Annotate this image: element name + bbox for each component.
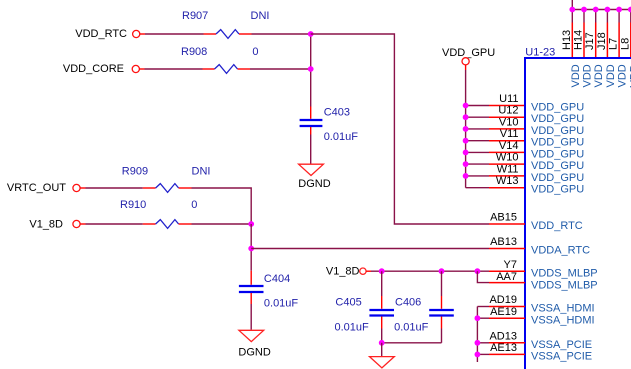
svg-text:Y7: Y7 bbox=[504, 259, 517, 271]
capacitor C403 bbox=[310, 107, 312, 119]
wire R908 to junction bbox=[250, 68, 311, 70]
svg-text:U1-23: U1-23 bbox=[525, 47, 555, 59]
svg-text:DGND: DGND bbox=[238, 347, 270, 359]
svg-text:VRTC_OUT: VRTC_OUT bbox=[7, 182, 66, 194]
svg-text:VDD: VDD bbox=[570, 64, 582, 87]
ground DGND (C403) bbox=[299, 164, 324, 175]
terminal VRTC_OUT bbox=[73, 184, 80, 191]
terminal VDD_GPU bbox=[462, 58, 469, 65]
svg-text:VDD_GPU: VDD_GPU bbox=[531, 172, 584, 184]
resistor R910 bbox=[143, 223, 156, 225]
svg-text:C405: C405 bbox=[335, 296, 361, 308]
svg-text:0.01uF: 0.01uF bbox=[324, 131, 359, 143]
capacitor C404 bbox=[250, 271, 252, 285]
svg-text:AB15: AB15 bbox=[490, 212, 517, 224]
resistor R907 bbox=[204, 33, 217, 35]
svg-text:C403: C403 bbox=[324, 106, 350, 118]
node C406 top bbox=[439, 268, 445, 274]
svg-text:DNI: DNI bbox=[192, 166, 211, 178]
svg-text:L7: L7 bbox=[608, 38, 620, 50]
svg-text:VDDS_MLBP: VDDS_MLBP bbox=[531, 268, 598, 280]
resistor R909 bbox=[143, 187, 156, 189]
wire junction vertical (R907/R908 to C403) bbox=[310, 34, 312, 107]
wire VDD_RTC to R907 bbox=[140, 33, 145, 35]
svg-text:VSSA_PCIE: VSSA_PCIE bbox=[531, 351, 592, 363]
wire pin W13 bbox=[466, 187, 489, 189]
wire pin V14 bbox=[466, 151, 489, 153]
svg-text:U11: U11 bbox=[499, 93, 518, 105]
svg-text:VDD: VDD bbox=[582, 64, 594, 87]
wire junction to AB15 branch bbox=[311, 34, 489, 224]
svg-text:VDD_GPU: VDD_GPU bbox=[531, 148, 584, 160]
svg-text:0: 0 bbox=[191, 199, 197, 211]
svg-text:0: 0 bbox=[252, 46, 258, 58]
svg-text:V11: V11 bbox=[500, 128, 519, 140]
svg-text:V10: V10 bbox=[499, 116, 519, 128]
wire R907 to junction bbox=[252, 33, 311, 35]
svg-text:J17: J17 bbox=[584, 32, 596, 50]
terminal V1_8D bottom bbox=[360, 268, 366, 274]
node C405 bottom bbox=[379, 340, 385, 346]
top bus wire bbox=[572, 0, 631, 10]
terminal V1_8D bbox=[73, 220, 80, 227]
wire pin U12 bbox=[466, 116, 489, 118]
svg-text:VDD_CORE: VDD_CORE bbox=[63, 63, 124, 75]
wire R909 to corner bbox=[192, 188, 252, 224]
svg-text:W13: W13 bbox=[496, 175, 519, 187]
svg-text:AE19: AE19 bbox=[490, 306, 517, 318]
pin AB13 stub bbox=[489, 248, 525, 250]
svg-text:VDDS_MLBP: VDDS_MLBP bbox=[531, 279, 598, 291]
wire AE13 bbox=[477, 353, 489, 355]
svg-text:C406: C406 bbox=[395, 296, 421, 308]
svg-text:AA7: AA7 bbox=[496, 271, 517, 283]
node VDDA_RTC branch bbox=[248, 246, 254, 252]
nodes on top bus bbox=[569, 7, 575, 13]
wire V1_8D to R910 bbox=[80, 223, 86, 225]
svg-text:VDD_RTC: VDD_RTC bbox=[531, 220, 583, 232]
svg-text:V1_8D: V1_8D bbox=[29, 218, 63, 230]
wire AD13 bbox=[477, 342, 489, 344]
svg-text:VDD_GPU: VDD_GPU bbox=[531, 102, 584, 114]
svg-text:AE13: AE13 bbox=[490, 342, 517, 354]
svg-text:VDD: VDD bbox=[605, 64, 617, 87]
wire pin V11 bbox=[466, 140, 489, 142]
svg-text:J18: J18 bbox=[596, 32, 608, 50]
svg-text:VDD_GPU: VDD_GPU bbox=[531, 125, 584, 137]
svg-text:DNI: DNI bbox=[251, 10, 270, 22]
wire to ground bbox=[381, 343, 383, 356]
svg-text:VDD_GPU: VDD_GPU bbox=[531, 184, 584, 196]
svg-text:VDD: VDD bbox=[617, 64, 629, 87]
wire VRTC_OUT to R909 bbox=[80, 187, 86, 189]
wire VSSA chain vertical bbox=[476, 307, 478, 363]
node R907 junction bbox=[308, 31, 314, 37]
svg-text:H14: H14 bbox=[573, 30, 585, 50]
ground DGND (C404) bbox=[239, 330, 264, 341]
ground (C405/C406) bbox=[370, 357, 395, 368]
wire pin W10 bbox=[466, 163, 489, 165]
svg-text:W11: W11 bbox=[497, 163, 519, 175]
svg-text:VSSA_HDMI: VSSA_HDMI bbox=[531, 314, 595, 326]
svg-text:VDD_GPU: VDD_GPU bbox=[442, 47, 495, 59]
svg-text:VSSA_PCIE: VSSA_PCIE bbox=[531, 339, 592, 351]
node R910 junction bbox=[248, 221, 254, 227]
node R908 junction bbox=[308, 66, 314, 72]
wire AA7 branch bbox=[477, 271, 489, 282]
svg-text:VDDA_RTC: VDDA_RTC bbox=[531, 245, 590, 257]
svg-text:R910: R910 bbox=[120, 199, 146, 211]
svg-text:L8: L8 bbox=[619, 38, 631, 50]
terminal VDD_RTC bbox=[133, 30, 140, 37]
capacitor C405 bbox=[381, 271, 383, 296]
svg-text:DGND: DGND bbox=[298, 178, 330, 190]
wire pin W11 bbox=[466, 175, 489, 177]
wire VDD_CORE to R908 bbox=[139, 68, 144, 70]
wire AE19 bbox=[477, 317, 489, 319]
pin AB15 stub bbox=[489, 223, 525, 225]
wire pin U11 bbox=[466, 105, 489, 107]
wire R910 to junction bbox=[192, 223, 252, 225]
svg-text:AB13: AB13 bbox=[490, 236, 517, 248]
svg-text:W10: W10 bbox=[496, 152, 519, 164]
svg-text:R907: R907 bbox=[182, 10, 208, 22]
svg-text:VSSA_HDMI: VSSA_HDMI bbox=[531, 303, 595, 315]
svg-text:V14: V14 bbox=[499, 140, 519, 152]
svg-text:U12: U12 bbox=[498, 105, 518, 117]
top pin stubs H13 H14 J17 J18 L7 L8 bbox=[571, 10, 573, 23]
svg-text:AD19: AD19 bbox=[489, 294, 517, 306]
svg-text:R909: R909 bbox=[122, 166, 148, 178]
wire VDDA_RTC to AB13 bbox=[251, 248, 489, 250]
svg-text:R908: R908 bbox=[181, 46, 207, 58]
terminal VDD_CORE bbox=[132, 65, 139, 72]
wire junction down to C404 bbox=[250, 224, 252, 271]
wire C406 bottom to C405 bottom bbox=[382, 342, 442, 344]
wire VDD_GPU terminal down bbox=[465, 65, 467, 70]
svg-text:C404: C404 bbox=[264, 273, 290, 285]
svg-text:0.01uF: 0.01uF bbox=[264, 297, 299, 309]
svg-text:VDD_GPU: VDD_GPU bbox=[531, 160, 584, 172]
svg-text:AD13: AD13 bbox=[489, 331, 517, 343]
svg-text:0.01uF: 0.01uF bbox=[394, 322, 429, 334]
resistor R908 bbox=[203, 68, 215, 70]
capacitor C406 bbox=[441, 271, 443, 296]
svg-text:VDD: VDD bbox=[593, 64, 605, 87]
node C405 top bbox=[379, 268, 385, 274]
svg-text:H13: H13 bbox=[561, 30, 573, 50]
wire pin V10 bbox=[466, 128, 489, 130]
wire V1_8D rail bbox=[366, 270, 371, 272]
svg-text:V1_8D: V1_8D bbox=[326, 266, 360, 278]
node AA7 branch bbox=[475, 268, 481, 274]
wire AD19 bbox=[477, 306, 489, 308]
svg-text:VDD_RTC: VDD_RTC bbox=[75, 28, 127, 40]
svg-text:0.01uF: 0.01uF bbox=[335, 322, 370, 334]
svg-text:VDD_GPU: VDD_GPU bbox=[531, 113, 584, 125]
svg-text:VDD_GPU: VDD_GPU bbox=[531, 137, 584, 149]
